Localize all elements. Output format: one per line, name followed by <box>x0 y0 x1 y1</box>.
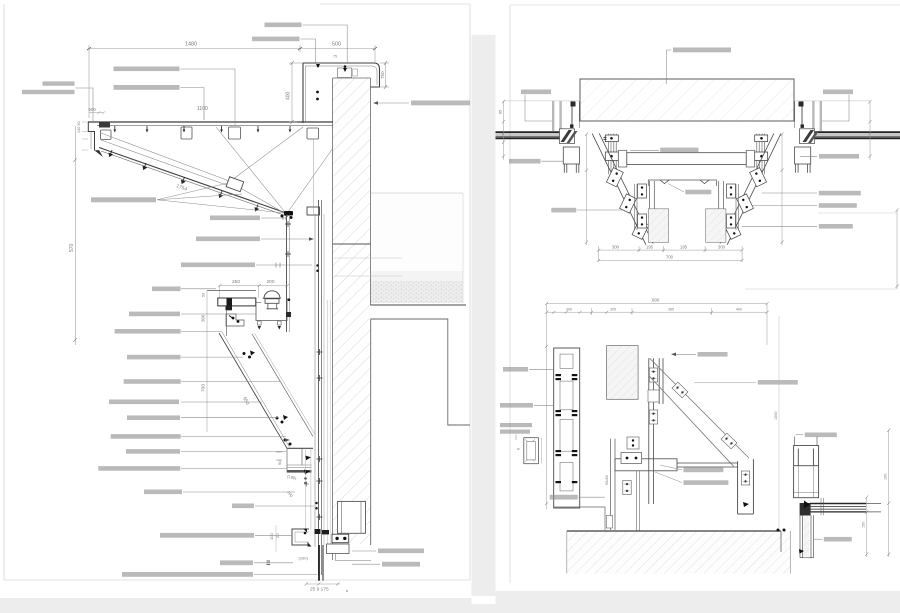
inner clip plates <box>638 184 647 198</box>
dim 750 vertical right of coping <box>380 61 390 89</box>
vertical dim line x207 <box>206 291 208 433</box>
right mullion box <box>794 466 819 498</box>
right jamb verticals <box>794 101 870 131</box>
purlin box 2 <box>181 127 192 139</box>
label 60*60*4mm tube <box>196 237 260 242</box>
svg-text:750: 750 <box>380 71 385 79</box>
anchor plate with bolts <box>332 534 349 543</box>
sloped bottom chord double line <box>99 148 289 215</box>
vertical hanger below apex <box>286 215 288 332</box>
label foam rod sealant <box>126 449 180 454</box>
svg-text:570: 570 <box>69 243 75 252</box>
svg-text:100: 100 <box>884 474 888 480</box>
studs on sloped chord <box>109 150 258 211</box>
bracket rect under coping <box>338 68 352 78</box>
left fascia profile <box>88 122 94 151</box>
left dim column for bottom drawing <box>545 345 548 505</box>
svg-text:500: 500 <box>89 107 97 112</box>
top dim lines <box>545 302 769 510</box>
label L100 right of diagonal <box>758 380 798 385</box>
svg-text:400: 400 <box>736 307 742 311</box>
floor slab region right of column <box>371 193 467 305</box>
label alu deco right <box>805 433 837 438</box>
label alu deco line right <box>819 154 859 159</box>
bolts cluster 1 <box>243 351 256 359</box>
label alu frame right <box>823 90 853 95</box>
insulated panel edge profile <box>287 447 313 449</box>
vertical ref line down from dim <box>778 316 780 529</box>
purlin box 3 (60*80 tube) <box>229 127 241 139</box>
right mullion box below frame <box>795 147 811 173</box>
left-center vertical strip <box>610 439 615 530</box>
coping outer profile <box>303 63 380 87</box>
window transom dark lines <box>810 504 881 512</box>
label wall insulation <box>111 434 181 439</box>
right upright strip <box>757 134 765 175</box>
hanger studs under beam <box>114 126 292 133</box>
label L50*5mm angle <box>210 216 260 221</box>
left mullion box below frame <box>563 147 579 173</box>
lamp body <box>265 299 279 304</box>
clip plates on vertical member <box>649 368 657 382</box>
hatched floor slab <box>567 531 791 574</box>
top line of cap <box>207 290 256 292</box>
svg-text:300: 300 <box>201 314 206 322</box>
svg-text:50x50: 50x50 <box>605 475 609 485</box>
label 3.0mm alu panel <box>114 85 180 90</box>
label M12 blob 1 <box>265 23 302 28</box>
label alu mullion <box>382 562 420 567</box>
label L100 lower <box>683 468 723 473</box>
diagonal band B <box>252 334 313 437</box>
gray gutter strip between the two sheets <box>472 35 496 596</box>
svg-text:300: 300 <box>718 245 726 250</box>
dim 400 vertical <box>289 61 303 124</box>
label outdoor face <box>411 101 470 106</box>
svg-text:250: 250 <box>232 279 240 285</box>
svg-text:195: 195 <box>646 245 654 250</box>
label M8 ss stone bolts <box>127 355 181 360</box>
svg-text:50: 50 <box>202 293 206 297</box>
dim line 1480 + 500 <box>87 45 377 118</box>
right sheet faint frame <box>510 5 900 583</box>
bolts on left upright <box>604 135 624 161</box>
lower wall block right of column <box>371 319 470 545</box>
svg-text:700: 700 <box>201 384 207 392</box>
svg-text:700: 700 <box>666 255 674 260</box>
left upright strip <box>609 134 617 175</box>
svg-text:500: 500 <box>332 42 341 48</box>
bottom dims <box>597 246 744 262</box>
inner small tubes <box>635 184 739 230</box>
right dim column <box>745 100 899 289</box>
purlin box at left end <box>101 130 112 140</box>
svg-text:25 9 175: 25 9 175 <box>310 587 329 593</box>
label alu frame left <box>521 90 551 95</box>
svg-text:1000: 1000 <box>774 412 778 420</box>
diagonal clip plate 2 <box>721 433 737 449</box>
lower mullion to slab <box>800 498 824 558</box>
label 3.0mm alu panel <box>98 466 180 471</box>
label 60*80*4mm tube <box>114 67 180 72</box>
lamp housing trough <box>256 298 287 321</box>
upper center stone rect <box>607 346 639 400</box>
left frame corner cluster <box>560 129 578 144</box>
main vertical member <box>649 358 663 504</box>
right leg clip plates <box>750 168 767 187</box>
svg-text:(190): (190) <box>299 556 309 561</box>
left tall stone assembly <box>554 348 580 508</box>
svg-text:150: 150 <box>862 522 866 528</box>
plate with bolts left center <box>621 453 642 464</box>
center left tube strip <box>650 181 655 209</box>
transom C profile lower <box>292 529 309 545</box>
label 50*50*4 tube <box>115 329 181 334</box>
label 2.0mm bottom left <box>550 495 578 500</box>
rotated gusset box on tie <box>226 177 244 192</box>
center bent alu plate <box>648 180 716 186</box>
left window band (dark transom lines) <box>496 132 563 138</box>
concrete column hatched body <box>333 78 371 544</box>
left dim column <box>502 100 505 160</box>
svg-text:85: 85 <box>499 110 503 114</box>
embed box in column <box>338 501 366 533</box>
svg-text:1480: 1480 <box>185 42 197 48</box>
label 3.0mm alu sheet <box>144 490 182 495</box>
frame corner dark cluster <box>800 503 811 516</box>
svg-text:400: 400 <box>286 91 292 100</box>
label 10mm stone top <box>698 352 728 357</box>
label acrylic cover <box>152 287 181 292</box>
right tube end block <box>746 150 754 167</box>
svg-text:200: 200 <box>267 279 275 285</box>
dim 570 vertical far left <box>73 126 76 345</box>
truss upper tie member <box>101 127 333 214</box>
svg-text:365: 365 <box>668 307 674 311</box>
label slider piece <box>232 504 254 509</box>
svg-text:195: 195 <box>680 245 688 250</box>
label 2.0mm plate left <box>503 367 528 372</box>
plate on strip <box>623 481 631 495</box>
label 50x50 lower <box>683 480 728 485</box>
L-bracket with bolts <box>226 314 244 326</box>
svg-text:300: 300 <box>612 245 620 250</box>
diagonal band A double line <box>219 333 287 448</box>
bolt pairs on glass plane <box>316 264 319 272</box>
svg-text:90: 90 <box>277 460 282 465</box>
60*80 tube label lower with leader fan <box>91 197 156 202</box>
canopy top beam double line <box>88 121 333 123</box>
svg-text:900: 900 <box>652 298 660 303</box>
right window band <box>812 132 900 138</box>
svg-text:130 50: 130 50 <box>77 121 81 133</box>
apex connection blob <box>281 211 294 219</box>
right dims column <box>865 428 890 557</box>
label stone beam top <box>673 48 731 53</box>
small rect box right of hanger <box>307 207 320 215</box>
label 2.0 alu plate bottom <box>378 549 424 554</box>
column band line <box>333 243 371 245</box>
coping back leg <box>302 63 304 123</box>
outer V left leg <box>592 134 653 245</box>
bottom gray band right <box>496 591 900 613</box>
bolts on right upright <box>755 135 768 161</box>
left tube end block <box>618 150 626 167</box>
label alu mullion right <box>824 537 852 542</box>
small 100x50 tube detail <box>524 438 539 464</box>
L line from tall assembly bottom <box>554 507 605 530</box>
bottom dim 25/9/175 <box>305 583 341 586</box>
svg-text:8: 8 <box>517 448 521 450</box>
label alu transom left lower <box>509 159 541 164</box>
label M8 bolts 2 <box>127 415 180 420</box>
left sheet faint frame <box>4 4 470 580</box>
label 2.0mm alu center <box>685 190 711 195</box>
diagonal foot vertical <box>738 459 754 514</box>
tube label leader <box>630 150 659 152</box>
label 50x50 tube left <box>500 403 533 408</box>
svg-text:305: 305 <box>610 307 616 311</box>
label M12 blob 2 <box>252 37 300 42</box>
right frame corner cluster <box>800 129 820 144</box>
label 30mm granite <box>124 379 181 384</box>
labels left side <box>551 208 576 213</box>
svg-text:75: 75 <box>333 55 337 59</box>
right window assembly top bracket <box>794 437 819 466</box>
leaders into slab area <box>334 257 402 259</box>
bottom gray band left <box>0 598 472 613</box>
right stone block <box>706 209 726 243</box>
bolts cluster 2 <box>276 415 289 424</box>
label glass makeup <box>122 572 253 577</box>
left stone block <box>648 209 668 243</box>
svg-text:100: 100 <box>269 533 274 540</box>
pressure cap dark bar <box>218 298 256 306</box>
lamp dome <box>264 291 280 298</box>
diagonal clip plate 1 <box>672 382 688 398</box>
bottom window head: glass + frame <box>299 529 372 581</box>
stone beam hatched rect <box>580 79 794 121</box>
label alu profile two-line top-left <box>43 81 75 85</box>
svg-text:1100: 1100 <box>197 106 208 112</box>
label flood light <box>129 312 180 317</box>
label 100x50 two-line left <box>500 423 532 427</box>
dim 250 / 200 <box>218 284 289 298</box>
label L100*63*6mm connector <box>181 263 255 268</box>
side dim brackets <box>585 132 784 245</box>
center right tube strip <box>719 181 724 209</box>
stone joint clips <box>556 374 578 483</box>
left jamb verticals <box>504 101 581 131</box>
bolts cluster 3 <box>284 439 292 446</box>
anchor bolts in coping <box>316 91 319 94</box>
tick pairs on glass plane <box>285 221 323 520</box>
left leg clip plates <box>606 168 623 187</box>
label alu profile fluorocarbon <box>160 533 254 538</box>
horizontal band lower center <box>615 459 738 471</box>
label alu transom <box>220 560 253 565</box>
big diagonal band <box>649 358 749 466</box>
label 50*50*4 tube 2 <box>109 400 179 405</box>
outer V right leg <box>720 134 781 245</box>
small step marks left of C <box>276 452 282 460</box>
purlin box 4 near column <box>307 128 319 139</box>
horizontal 50x50 tube <box>627 153 746 165</box>
labels right side stack <box>819 191 861 196</box>
svg-text:300: 300 <box>566 307 572 311</box>
